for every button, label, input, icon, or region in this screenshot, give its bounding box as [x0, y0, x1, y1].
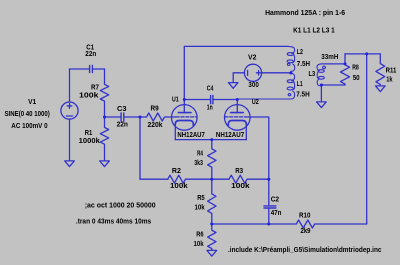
svg-text:47n: 47n [271, 210, 282, 217]
node R5/R6/bottom [210, 223, 213, 226]
svg-text:Hammond 125A : pin 1-6: Hammond 125A : pin 1-6 [265, 10, 345, 17]
node R3/C2 [267, 178, 270, 181]
wire row y179 left [140, 178, 168, 180]
resistor R8 [340, 64, 349, 85]
svg-text:R2: R2 [172, 168, 181, 175]
svg-text:L2: L2 [297, 49, 303, 56]
node L3 bottom [320, 84, 323, 87]
resistor R3 [229, 175, 269, 183]
svg-text:.include K:\Préampli_G5\Simula: .include K:\Préampli_G5\Simulation\dmtri… [228, 247, 382, 254]
svg-text:220k: 220k [148, 122, 163, 129]
svg-text:300: 300 [248, 82, 258, 89]
svg-text:SINE(0 40 1000): SINE(0 40 1000) [5, 111, 50, 118]
svg-text:10k: 10k [194, 241, 204, 248]
svg-text:1000k: 1000k [79, 138, 100, 145]
wire C1 left vertical to V1 top [69, 69, 71, 102]
resistor R7 [100, 69, 108, 117]
node V2/L1/L2 [289, 72, 292, 75]
node U2 plate [236, 98, 239, 101]
voltage source V1 [61, 102, 78, 161]
wire node2 down to R2 row [139, 117, 141, 179]
inductor L3 [317, 64, 325, 86]
triode U1 [172, 100, 198, 140]
resistor R1 [100, 117, 108, 161]
wire L3 top to R8 top [321, 54, 345, 64]
svg-text:22n: 22n [85, 51, 96, 58]
svg-text:R5: R5 [197, 195, 205, 202]
capacitor C1 [90, 66, 105, 73]
resistor R2 [168, 175, 212, 183]
svg-text:V1: V1 [28, 99, 36, 106]
svg-text:33mH: 33mH [321, 54, 338, 61]
ground (R6) [207, 250, 217, 256]
capacitor C2 [264, 206, 276, 208]
svg-text:7.5H: 7.5H [296, 91, 310, 98]
svg-text:R9: R9 [151, 105, 159, 112]
svg-text:R10: R10 [299, 212, 310, 219]
svg-text:NH12AU7: NH12AU7 [216, 130, 244, 139]
wire top right rail [345, 53, 380, 55]
svg-text:1n: 1n [207, 104, 213, 111]
ground (V2) [228, 83, 238, 89]
node cathode/R4 [210, 138, 213, 141]
inductor L2 [287, 46, 295, 73]
wire right rail up [366, 54, 368, 224]
svg-text:R6: R6 [196, 232, 203, 239]
svg-text:10k: 10k [195, 204, 205, 211]
wire U1 plate up and top rail to L2 [184, 46, 288, 99]
svg-text:C4: C4 [207, 85, 214, 92]
node C3/R9/R2 [139, 116, 142, 119]
svg-text:AC 100mV 0: AC 100mV 0 [11, 123, 47, 130]
ground (R11) [376, 86, 386, 92]
svg-text:100k: 100k [231, 183, 250, 190]
wire row y179 mid [212, 178, 229, 180]
svg-text:3k3: 3k3 [194, 160, 203, 167]
node U1 plate [183, 98, 186, 101]
svg-text:100k: 100k [170, 183, 188, 190]
wire U1 plate to C4 [184, 99, 210, 101]
svg-text:7.5H: 7.5H [297, 61, 310, 68]
ground (R1) [100, 161, 110, 167]
svg-text:R8: R8 [352, 64, 359, 71]
resistor R11 [376, 54, 385, 85]
svg-text:NH12AU7: NH12AU7 [177, 130, 205, 139]
ground (V1) [65, 161, 75, 167]
svg-text:L3: L3 [309, 71, 316, 78]
wire C2 bottom lead [268, 208, 270, 224]
cathode rail [175, 139, 246, 141]
wire U2 grid to right and down to C2 [250, 117, 269, 202]
node R7/C3/R1 [103, 116, 106, 119]
svg-text:V2: V2 [248, 55, 257, 62]
svg-text:U2: U2 [252, 99, 259, 106]
svg-text:;ac oct 1000 20 50000: ;ac oct 1000 20 50000 [85, 202, 156, 209]
svg-text:R7: R7 [91, 85, 99, 92]
svg-text:R11: R11 [386, 67, 397, 74]
svg-text:C2: C2 [271, 196, 279, 203]
svg-text:L1: L1 [297, 81, 303, 88]
node C2 bottom [267, 223, 270, 226]
wire node1 to C3 [105, 116, 121, 118]
capacitor C3 [121, 113, 140, 121]
triode U2 (mirrored) [225, 100, 251, 140]
svg-text:100k: 100k [79, 93, 99, 100]
node R4/R5/R2/R3 [210, 178, 213, 181]
wire C2 top lead [268, 202, 270, 206]
resistor R4 [208, 140, 216, 180]
svg-text:R1: R1 [85, 130, 93, 137]
svg-text:.tran 0 43ms 40ms 10ms: .tran 0 43ms 40ms 10ms [76, 219, 151, 226]
capacitor C4 [211, 96, 238, 104]
svg-text:K1 L1 L2 L3 1: K1 L1 L2 L3 1 [293, 27, 335, 34]
resistor R10 [296, 220, 366, 228]
wire C1 horizontal left lead [70, 68, 90, 70]
node L3/R8 top [344, 62, 347, 65]
resistor R6 [208, 224, 216, 250]
ground (L3) [320, 85, 322, 102]
inductor L1 [237, 73, 294, 99]
svg-text:R4: R4 [197, 150, 203, 157]
svg-text:R3: R3 [235, 168, 243, 175]
svg-text:1k: 1k [386, 77, 392, 84]
wire L3 bottom to R8 bottom [321, 84, 345, 86]
svg-text:2k9: 2k9 [301, 228, 311, 235]
svg-text:C3: C3 [117, 106, 127, 113]
bottom wire R5R6 node to R10 [212, 223, 296, 225]
node top right rail [365, 52, 368, 55]
svg-text:U1: U1 [172, 96, 179, 103]
resistor R9 [140, 113, 172, 121]
voltage source V2 [233, 64, 291, 82]
svg-text:50: 50 [353, 75, 360, 82]
svg-text:22n: 22n [117, 122, 128, 129]
resistor R5 [208, 179, 216, 224]
